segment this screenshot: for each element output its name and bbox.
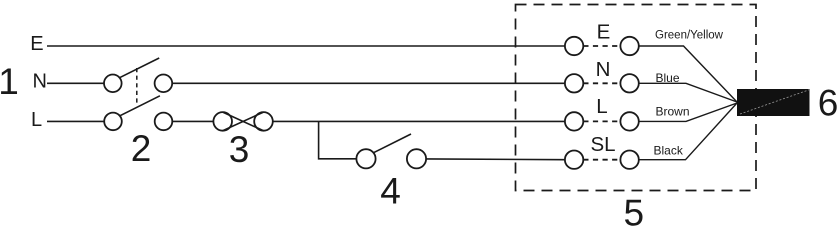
terminal L pair bbox=[565, 112, 639, 130]
svg-text:2: 2 bbox=[131, 128, 152, 169]
connector 3 (two-pole plug/socket) bbox=[213, 112, 272, 131]
wire N (supply to switch 2) bbox=[47, 82, 104, 84]
wire L (supply to switch 2) bbox=[47, 120, 104, 122]
svg-text:Brown: Brown bbox=[656, 105, 690, 119]
cord wire green/yellow bbox=[639, 46, 737, 102]
svg-text:Black: Black bbox=[654, 144, 684, 158]
svg-text:Green/Yellow: Green/Yellow bbox=[655, 30, 724, 42]
svg-text:SL: SL bbox=[590, 133, 615, 156]
svg-text:Blue: Blue bbox=[656, 71, 680, 85]
wire SL branch (junction drop) bbox=[319, 121, 357, 158]
wire L (switch 2 to connector 3) bbox=[172, 120, 213, 122]
svg-text:5: 5 bbox=[624, 193, 645, 228]
terminal SL pair bbox=[565, 151, 639, 169]
svg-text:N: N bbox=[596, 58, 611, 81]
svg-text:L: L bbox=[596, 95, 607, 118]
terminal N pair bbox=[565, 74, 639, 92]
svg-text:6: 6 bbox=[818, 83, 838, 124]
svg-text:E: E bbox=[597, 21, 611, 44]
cord wire blue bbox=[639, 83, 737, 102]
svg-text:N: N bbox=[33, 71, 47, 93]
svg-text:E: E bbox=[30, 33, 43, 55]
plug 6 (moulded connector body) bbox=[737, 89, 810, 116]
terminal E pair bbox=[565, 37, 639, 55]
switch 4 (lamp switch) bbox=[356, 134, 426, 168]
svg-text:L: L bbox=[31, 109, 42, 131]
cord wire brown bbox=[639, 103, 737, 121]
wire E (supply to terminal block) bbox=[47, 45, 565, 47]
svg-text:1: 1 bbox=[0, 61, 19, 102]
svg-text:4: 4 bbox=[380, 171, 401, 212]
terminal block 5 (dashed enclosure) bbox=[516, 5, 757, 191]
double-pole switch 2 bbox=[104, 58, 172, 130]
wire L (connector 3 to terminal block, through junction) bbox=[273, 120, 565, 122]
svg-text:3: 3 bbox=[229, 129, 250, 170]
wire SL (switch 4 to terminal block) bbox=[426, 158, 565, 161]
cord wire black bbox=[639, 103, 737, 160]
wire N (switch 2 to terminal block) bbox=[172, 82, 565, 84]
